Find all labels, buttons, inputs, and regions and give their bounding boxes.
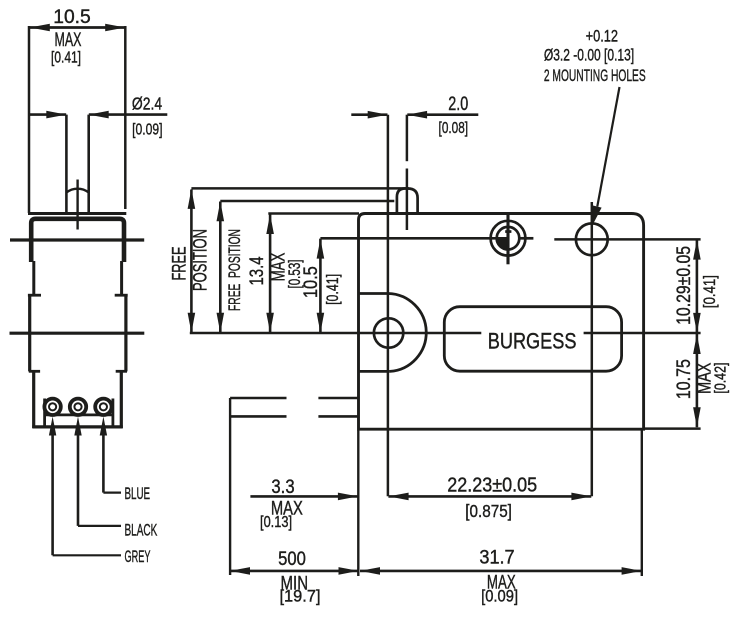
svg-text:10.29±0.05: 10.29±0.05 xyxy=(673,246,695,325)
svg-text:BLACK: BLACK xyxy=(125,519,158,539)
plunger dome arc xyxy=(66,189,89,193)
right hole vertical axis / 22.23 extension xyxy=(591,202,594,496)
main view body outline xyxy=(359,214,644,430)
terminal recess left wall xyxy=(43,399,46,428)
dim 10.29 vertical xyxy=(696,240,699,333)
svg-text:BURGESS: BURGESS xyxy=(488,330,577,354)
side view right lower-mid edge xyxy=(124,295,127,371)
svg-text:BLUE: BLUE xyxy=(125,483,151,503)
right bottom connector xyxy=(644,427,701,430)
side view right step 2 xyxy=(116,370,127,373)
BURGESS label box xyxy=(444,307,621,372)
svg-text:FREE: FREE xyxy=(169,246,190,280)
terminal 2 inner ring xyxy=(74,403,81,410)
wire exit top line xyxy=(230,397,286,400)
mounting holes leader line xyxy=(597,87,619,207)
svg-text:POSITION: POSITION xyxy=(190,229,211,291)
svg-text:GREY: GREY xyxy=(125,547,151,566)
grey wire leader xyxy=(53,554,121,556)
left mounting hole outer circle xyxy=(491,221,526,256)
dim 22.23 xyxy=(388,495,591,498)
left hole vertical crosshair xyxy=(506,214,509,265)
svg-text:3.3: 3.3 xyxy=(271,476,294,497)
blue wire leader xyxy=(103,492,121,494)
boss top chord xyxy=(359,292,389,295)
wire exit bottom line xyxy=(230,415,286,418)
dimension 2.0 arrows xyxy=(351,113,387,116)
black wire arrow xyxy=(74,417,81,436)
free position top line xyxy=(191,187,409,190)
side view upper crossing line xyxy=(10,238,144,241)
side view right bottom edge xyxy=(120,371,123,428)
dim FREE POSITION 2 xyxy=(219,202,222,333)
right hole horizontal crosshair / 10.29 connector xyxy=(554,238,700,241)
side view left step 2 xyxy=(29,370,40,373)
svg-text:500: 500 xyxy=(278,548,306,569)
terminal 3 inner ring xyxy=(100,403,107,410)
side view right step 1 xyxy=(115,294,128,297)
svg-text:[0.08]: [0.08] xyxy=(439,118,468,136)
svg-text:[0.09]: [0.09] xyxy=(481,588,518,606)
pin axis line B (with break) xyxy=(406,115,409,162)
black wire leader xyxy=(78,525,121,527)
dim 13.4 MAX [0.53] xyxy=(269,214,272,333)
side view bottom edge xyxy=(32,425,123,428)
side view left lower-mid edge xyxy=(28,295,31,371)
plunger left edge (side view) xyxy=(65,115,68,212)
svg-text:Ø3.2 -0.00 [0.13]: Ø3.2 -0.00 [0.13] xyxy=(544,47,634,65)
svg-text:[0.13]: [0.13] xyxy=(260,514,292,532)
body top edge extension xyxy=(268,212,359,215)
side view right mid wall xyxy=(120,261,123,294)
center line right segment xyxy=(584,332,701,335)
svg-text:31.7: 31.7 xyxy=(479,546,514,567)
extension line x=641.8 xyxy=(641,430,643,576)
left hole horizontal crosshair / 10.5 connector xyxy=(320,237,508,240)
dim 10.5 [0.41] vertical xyxy=(319,239,322,333)
dimension line 10.5 xyxy=(30,26,125,29)
blue wire arrow xyxy=(100,417,107,436)
left hole filled quadrant xyxy=(497,238,508,249)
svg-text:[0.875]: [0.875] xyxy=(465,501,512,521)
svg-text:2 MOUNTING HOLES: 2 MOUNTING HOLES xyxy=(544,65,646,84)
svg-text:[0.41]: [0.41] xyxy=(324,274,342,305)
terminal 1 outer ring xyxy=(44,399,60,415)
main view plunger pin xyxy=(397,189,418,214)
svg-text:[0.41]: [0.41] xyxy=(700,275,719,308)
extension line x=230 xyxy=(229,398,231,575)
terminal 3 outer ring xyxy=(95,399,111,415)
svg-text:10.75: 10.75 xyxy=(673,359,695,399)
right mounting hole circle xyxy=(576,223,608,255)
plunger center line xyxy=(76,180,78,230)
dim 500 MIN xyxy=(230,570,359,573)
terminal 1 inner ring xyxy=(49,403,56,410)
svg-text:13.4: 13.4 xyxy=(246,257,267,286)
dim 31.7 MAX xyxy=(360,570,642,573)
svg-text:[0.42]: [0.42] xyxy=(712,363,730,394)
side view lower crossing line xyxy=(10,332,145,335)
side view cap inner outline xyxy=(31,219,124,262)
svg-text:2.0: 2.0 xyxy=(448,93,468,114)
free position second line xyxy=(220,200,394,203)
svg-text:[0.41]: [0.41] xyxy=(51,48,81,66)
side view left bottom edge xyxy=(32,371,35,428)
svg-text:10.5: 10.5 xyxy=(300,266,321,298)
side view: extension line left of 10.5 dim xyxy=(28,26,31,213)
side view body top edge xyxy=(28,212,126,215)
dimension Ø2.4 arrows xyxy=(29,113,66,116)
svg-text:FREE POSITION: FREE POSITION xyxy=(224,229,243,311)
dim 10.75 vertical xyxy=(696,334,699,427)
boss inner circle xyxy=(374,318,403,347)
plunger right edge (side view) xyxy=(87,115,90,212)
extension line x=358.5 xyxy=(357,430,359,576)
svg-text:[19.7]: [19.7] xyxy=(280,586,321,605)
side view: extension line right of 10.5 dim xyxy=(124,26,127,209)
grey wire arrow xyxy=(49,417,56,436)
side view left mid wall xyxy=(32,261,35,294)
boss bottom chord xyxy=(359,370,390,373)
dim FREE POSITION 1 xyxy=(190,190,193,333)
center line left segment xyxy=(190,332,482,335)
left mounting hole inner circle xyxy=(497,227,520,250)
terminal recess right wall xyxy=(112,399,115,428)
svg-text:+0.12: +0.12 xyxy=(586,27,618,46)
terminal 2 outer ring xyxy=(70,399,86,415)
svg-text:10.5: 10.5 xyxy=(53,7,90,28)
svg-text:Ø2.4: Ø2.4 xyxy=(132,94,162,114)
svg-text:22.23±0.05: 22.23±0.05 xyxy=(447,475,537,497)
svg-text:[0.09]: [0.09] xyxy=(132,121,162,139)
dim 3.3 arrow xyxy=(250,495,357,498)
datum axis line A xyxy=(387,115,390,497)
terminal pedestal line xyxy=(44,413,112,416)
boss arc xyxy=(388,294,426,372)
side view left step 1 xyxy=(28,294,41,297)
